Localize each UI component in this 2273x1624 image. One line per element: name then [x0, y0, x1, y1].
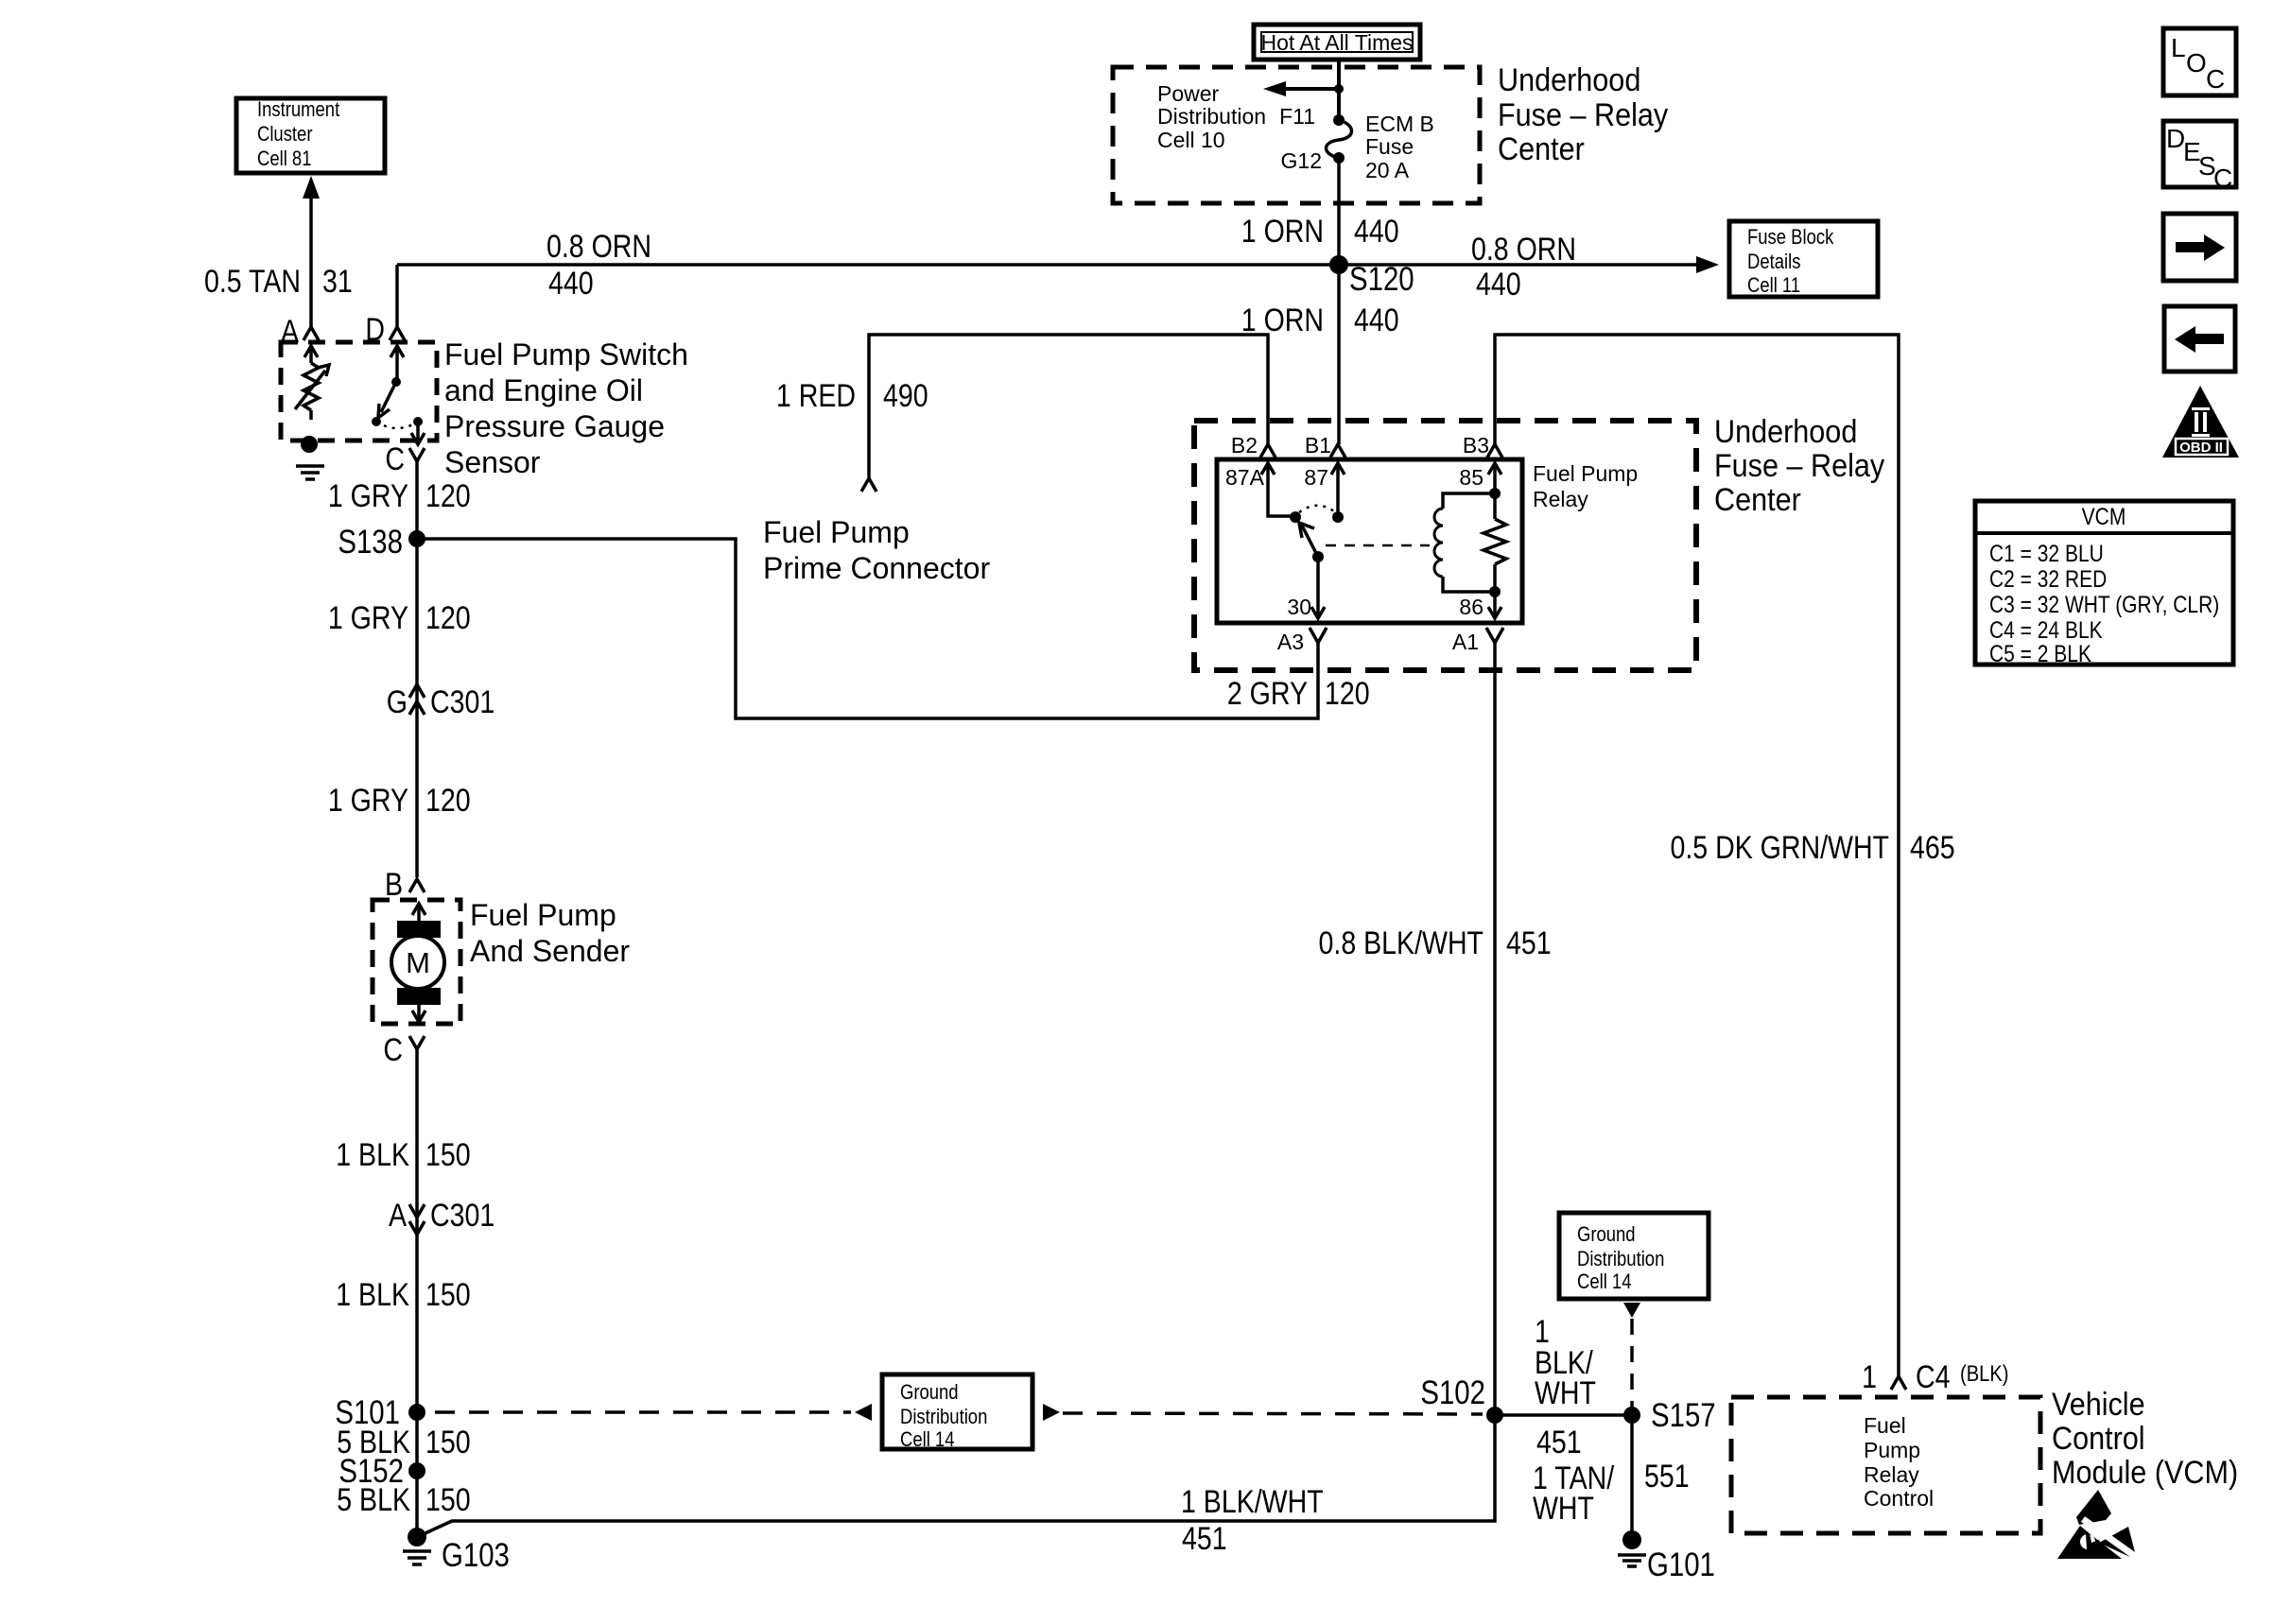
pin B of fuel pump [385, 867, 425, 903]
label Underhood Fuse-Relay Center (top) [1498, 62, 1669, 167]
svg-text:87: 87 [1304, 465, 1328, 490]
label Fuel Pump Relay Control [1864, 1413, 1934, 1511]
dashed wire S157 up to ground distribution box [1623, 1303, 1640, 1407]
svg-text:C4 = 24 BLK: C4 = 24 BLK [1989, 616, 2103, 643]
LOC icon [2163, 28, 2236, 95]
svg-text:85: 85 [1459, 465, 1484, 490]
svg-text:0.8 ORN: 0.8 ORN [1471, 232, 1576, 268]
svg-text:1 GRY: 1 GRY [328, 478, 408, 514]
label 2 GRY 120 [1227, 676, 1370, 712]
pin A1 of relay [1452, 628, 1503, 654]
label Underhood Fuse-Relay Center (relay) [1714, 414, 1885, 518]
svg-text:Fuel Pump: Fuel Pump [470, 898, 616, 932]
svg-text:Underhood: Underhood [1498, 62, 1640, 98]
svg-text:WHT: WHT [1533, 1491, 1594, 1527]
svg-text:120: 120 [425, 600, 471, 636]
svg-text:Distribution: Distribution [1577, 1249, 1664, 1271]
wire from Hot At All Times into fuse [1337, 60, 1341, 120]
splice S102 [1420, 1374, 1503, 1424]
label 1 BLK 150 (upper) [336, 1137, 470, 1173]
svg-text:1 ORN: 1 ORN [1241, 302, 1324, 338]
svg-text:150: 150 [425, 1425, 471, 1460]
svg-text:O: O [2186, 48, 2207, 78]
fuel pump prime connector pin [861, 478, 876, 492]
label 1 ORN 440 (below S120) [1241, 302, 1399, 338]
svg-text:Vehicle: Vehicle [2052, 1387, 2145, 1423]
underhood fuse-relay center dashed box (power distribution) [1113, 67, 1480, 203]
label Fuel Pump Relay [1533, 461, 1638, 511]
svg-text:A3: A3 [1277, 630, 1304, 654]
component label: Fuel Pump And Sender [470, 898, 630, 968]
splice S138 [338, 524, 425, 561]
Hot At All Times box [1254, 25, 1420, 60]
label 1 GRY 120 (middle) [328, 600, 471, 636]
label 1 BLK 150 (lower) [336, 1277, 470, 1313]
svg-text:1 ORN: 1 ORN [1241, 214, 1324, 250]
fuel pump and sender dashed box [373, 900, 460, 1024]
svg-text:Relay: Relay [1533, 487, 1588, 511]
svg-text:490: 490 [883, 378, 928, 414]
variable resistor (oil pressure sensor element) [295, 346, 329, 420]
svg-text:150: 150 [425, 1137, 471, 1173]
svg-text:465: 465 [1910, 830, 1955, 866]
splice S157 [1623, 1397, 1716, 1434]
Fuse Block Details reference box [1729, 221, 1878, 297]
svg-text:C: C [385, 441, 405, 477]
wire 0.8 ORN 440 from S120 to fuse block details [1339, 256, 1719, 273]
wire S102 to S157 [1495, 1413, 1632, 1417]
svg-text:C: C [2213, 164, 2232, 193]
relay coil resistor [1484, 493, 1506, 597]
svg-text:Hot At All Times: Hot At All Times [1260, 30, 1413, 55]
svg-text:L: L [2171, 33, 2186, 62]
label 1 BLK/WHT 451 [1181, 1484, 1324, 1557]
pin A3 of relay [1277, 628, 1327, 654]
fuel pump switch and sensor dashed box [281, 342, 437, 441]
svg-text:1 GRY: 1 GRY [328, 600, 408, 636]
svg-text:B: B [385, 867, 403, 903]
relay terminal 30 [1287, 557, 1325, 619]
svg-text:C4: C4 [1916, 1359, 1950, 1395]
svg-text:Fuel Pump: Fuel Pump [1533, 461, 1638, 486]
svg-text:C3 = 32 WHT (GRY, CLR): C3 = 32 WHT (GRY, CLR) [1989, 591, 2219, 617]
svg-text:1 GRY: 1 GRY [328, 783, 408, 819]
svg-text:Distribution: Distribution [900, 1407, 987, 1429]
svg-text:M: M [406, 946, 430, 979]
pin D of fuel pump switch [365, 312, 405, 348]
svg-text:Cell 10: Cell 10 [1157, 128, 1225, 152]
fuse F11/G12 ECM B Fuse 20 A [1279, 104, 1434, 182]
svg-text:C2 = 32 RED: C2 = 32 RED [1989, 565, 2107, 592]
svg-text:1 RED: 1 RED [776, 378, 856, 414]
relay terminal 87 [1304, 463, 1345, 523]
splice S101 [335, 1394, 425, 1431]
label Vehicle Control Module (VCM) [2052, 1387, 2238, 1491]
vehicle control module dashed box [1731, 1397, 2040, 1533]
svg-text:VCM: VCM [2082, 503, 2126, 529]
svg-text:A1: A1 [1452, 630, 1479, 654]
svg-text:451: 451 [1182, 1521, 1227, 1557]
wire from relay pin B3 to VCM pin C4 (0.5 DK GRN/WHT 465) [1495, 335, 1899, 1375]
wire 5 BLK 150 S101 to G103 [415, 1412, 419, 1537]
label 1 GRY 120 (lower) [328, 783, 471, 819]
svg-text:120: 120 [425, 478, 471, 514]
svg-text:Ground: Ground [900, 1382, 959, 1405]
svg-text:Underhood: Underhood [1714, 414, 1857, 450]
svg-text:Ground: Ground [1577, 1224, 1636, 1247]
label 5 BLK 150 (upper) [337, 1425, 470, 1460]
svg-text:B1: B1 [1305, 433, 1331, 458]
svg-text:S157: S157 [1651, 1397, 1716, 1434]
svg-text:0.8 ORN: 0.8 ORN [547, 229, 651, 265]
svg-text:Distribution: Distribution [1157, 104, 1266, 129]
relay terminal 86 [1459, 592, 1501, 619]
label 0.5 DK GRN/WHT 465 [1670, 830, 1954, 866]
connector C301 pin G [387, 684, 495, 720]
svg-text:0.5 TAN: 0.5 TAN [204, 264, 301, 300]
dashed wire S101 to ground distribution box [435, 1410, 851, 1414]
pin A of fuel pump switch [281, 314, 319, 350]
wire 1 BLK/WHT 451 from G103 to S102 [417, 1415, 1495, 1537]
pin C of fuel pump switch [385, 441, 425, 477]
svg-text:451: 451 [1506, 925, 1552, 961]
wire 1 ORN 440 from S120 down to relay pin B1 [1337, 265, 1341, 444]
svg-text:551: 551 [1644, 1459, 1690, 1494]
svg-text:(BLK): (BLK) [1960, 1360, 2009, 1386]
svg-text:WHT: WHT [1535, 1375, 1596, 1411]
svg-text:Fuel: Fuel [1864, 1413, 1906, 1438]
relay switch arm [1290, 506, 1334, 562]
svg-text:20 A: 20 A [1365, 158, 1410, 182]
svg-text:440: 440 [1354, 214, 1399, 250]
svg-text:0.8 BLK/WHT: 0.8 BLK/WHT [1319, 925, 1484, 961]
wire from S138 to relay pin A3 (2 GRY 120) [417, 539, 1318, 718]
svg-text:Fuel Pump Switch: Fuel Pump Switch [444, 337, 688, 371]
svg-text:C: C [383, 1032, 403, 1068]
svg-text:Details: Details [1747, 251, 1800, 274]
pin B3 of relay [1463, 433, 1502, 458]
label 5 BLK 150 (lower) [337, 1482, 470, 1518]
svg-text:451: 451 [1536, 1425, 1582, 1460]
pin B1 of relay [1305, 433, 1345, 458]
wire 0.8 ORN 440 from pin D to S120 [395, 265, 399, 327]
fuel pump relay box [1217, 459, 1522, 623]
svg-text:87A: 87A [1225, 465, 1265, 490]
fuel pump motor M [391, 904, 444, 1022]
label 0.8 ORN 440 (left) [547, 229, 651, 302]
svg-text:440: 440 [1354, 302, 1399, 338]
svg-text:S138: S138 [338, 524, 403, 561]
svg-text:Pressure Gauge: Pressure Gauge [444, 409, 665, 443]
ground distribution reference box (middle) [855, 1374, 1060, 1451]
svg-text:440: 440 [1476, 267, 1521, 302]
component label: Fuel Pump Switch and Engine Oil Pressure Gauge Sensor [444, 337, 688, 479]
svg-text:120: 120 [1325, 676, 1370, 712]
svg-text:C301: C301 [430, 1198, 495, 1234]
splice S120 [1329, 255, 1414, 298]
branch arrow to power distribution [1263, 81, 1344, 96]
label 1 RED 490 [776, 378, 928, 414]
pin B2 of relay [1231, 433, 1275, 458]
wire 1 GRY 120 pin C to S138 [415, 461, 419, 539]
svg-text:5 BLK: 5 BLK [337, 1482, 410, 1518]
svg-text:F11: F11 [1279, 104, 1315, 129]
relay terminal 87A [1225, 463, 1292, 516]
underhood fuse-relay center dashed box (relay) [1194, 421, 1696, 670]
svg-text:Prime Connector: Prime Connector [763, 551, 990, 585]
svg-text:C1 = 32 BLU: C1 = 32 BLU [1989, 540, 2104, 566]
label 1 TAN/WHT 551 [1533, 1459, 1690, 1527]
wire S157 down to G101 [1630, 1415, 1634, 1540]
svg-text:1 BLK/WHT: 1 BLK/WHT [1181, 1484, 1324, 1520]
svg-text:Fuse Block: Fuse Block [1747, 227, 1834, 250]
splice S152 [338, 1453, 425, 1490]
svg-text:Center: Center [1498, 131, 1585, 167]
label 1 GRY 120 (upper) [328, 478, 471, 514]
relay terminal 85 [1459, 463, 1501, 499]
dashed wire ground distribution box to S102 [1063, 1413, 1483, 1414]
svg-text:Cell 14: Cell 14 [1577, 1271, 1631, 1294]
wire S138 down to connector C301 pin G [415, 539, 419, 877]
svg-text:Cell 14: Cell 14 [900, 1429, 954, 1452]
label 0.5 TAN 31 [204, 264, 353, 300]
svg-text:Fuse – Relay: Fuse – Relay [1714, 448, 1885, 484]
svg-text:Cell 11: Cell 11 [1747, 275, 1800, 298]
relay coil [1434, 493, 1495, 592]
svg-text:1 BLK: 1 BLK [336, 1277, 409, 1313]
svg-text:1 BLK: 1 BLK [336, 1137, 409, 1173]
label Power Distribution Cell 10 [1157, 81, 1266, 152]
svg-text:150: 150 [425, 1277, 471, 1313]
svg-text:0.5 DK GRN/WHT: 0.5 DK GRN/WHT [1670, 830, 1889, 866]
relay coil linkage dashed line [1326, 544, 1430, 547]
OBD II triangle icon [2162, 386, 2239, 458]
svg-text:G: G [387, 684, 408, 720]
wire 1 RED 490 prime connector to relay pin B2 [869, 335, 1268, 477]
connector C301 pin A [389, 1198, 495, 1235]
Instrument Cluster reference box [236, 98, 385, 173]
ground distribution reference box (right) [1559, 1213, 1709, 1299]
svg-text:1: 1 [1862, 1359, 1877, 1395]
label Fuel Pump Prime Connector [763, 515, 990, 585]
svg-text:B2: B2 [1231, 433, 1258, 458]
svg-text:Center: Center [1714, 482, 1801, 518]
wire 0.8 BLK/WHT 451 from pin A1 to S102 [1493, 643, 1497, 1415]
svg-text:A: A [389, 1198, 407, 1234]
svg-text:86: 86 [1459, 595, 1484, 619]
svg-text:120: 120 [425, 783, 471, 819]
label 0.8 ORN 440 (right) [1471, 232, 1576, 302]
svg-text:150: 150 [425, 1482, 471, 1518]
ESD sensitive device symbol [2057, 1490, 2143, 1562]
svg-text:Control: Control [2052, 1421, 2145, 1457]
left arrow icon [2164, 306, 2235, 371]
fuel pump switch contacts [372, 346, 425, 444]
svg-text:Cell 81: Cell 81 [257, 148, 311, 171]
svg-text:Pump: Pump [1864, 1438, 1920, 1462]
svg-text:and Engine Oil: and Engine Oil [444, 373, 643, 407]
svg-text:2 GRY: 2 GRY [1227, 676, 1308, 712]
ground G101 [1618, 1530, 1715, 1583]
VCM connector table [1975, 501, 2233, 666]
svg-text:G103: G103 [442, 1537, 510, 1574]
ground G103 [403, 1528, 510, 1574]
svg-text:And Sender: And Sender [470, 934, 630, 968]
svg-text:Fuse: Fuse [1365, 134, 1414, 159]
svg-text:B3: B3 [1463, 433, 1489, 458]
svg-text:30: 30 [1287, 595, 1311, 619]
svg-text:Control: Control [1864, 1486, 1934, 1511]
svg-text:Module (VCM): Module (VCM) [2052, 1455, 2238, 1491]
ground symbol under sensor [296, 466, 324, 479]
svg-text:Fuel Pump: Fuel Pump [763, 515, 910, 549]
svg-text:Power: Power [1157, 81, 1220, 106]
right arrow icon [2163, 214, 2236, 281]
svg-text:Sensor: Sensor [444, 445, 541, 479]
svg-text:S102: S102 [1420, 1374, 1485, 1411]
svg-text:C: C [2206, 64, 2225, 94]
pin C4 of VCM [1862, 1359, 2008, 1395]
svg-text:C301: C301 [430, 684, 495, 720]
label 1 BLK/WHT 451 (right) [1535, 1314, 1596, 1460]
svg-text:OBD II: OBD II [2179, 440, 2223, 456]
wire fuse to S120 [1337, 158, 1341, 265]
svg-text:Fuse – Relay: Fuse – Relay [1498, 97, 1669, 133]
svg-text:G101: G101 [1647, 1546, 1715, 1583]
svg-text:G12: G12 [1281, 148, 1322, 173]
label 0.8 BLK/WHT 451 [1319, 925, 1552, 961]
svg-text:440: 440 [548, 266, 594, 302]
pin C of fuel pump [383, 1032, 425, 1068]
wire 0.5 TAN 31 to instrument cluster (arrow up) [303, 176, 320, 327]
svg-text:Instrument: Instrument [257, 99, 340, 122]
svg-text:ECM B: ECM B [1365, 112, 1434, 136]
wire 1 BLK 150 pin C down to S101 [415, 1049, 419, 1412]
sensor internal ground dot [301, 436, 318, 453]
DESC icon [2163, 121, 2236, 193]
svg-text:Relay: Relay [1864, 1462, 1919, 1487]
label 1 ORN 440 (above S120) [1241, 214, 1399, 250]
svg-text:Cluster: Cluster [257, 124, 313, 147]
svg-text:C5 = 2 BLK: C5 = 2 BLK [1989, 640, 2091, 666]
svg-text:31: 31 [322, 264, 353, 300]
